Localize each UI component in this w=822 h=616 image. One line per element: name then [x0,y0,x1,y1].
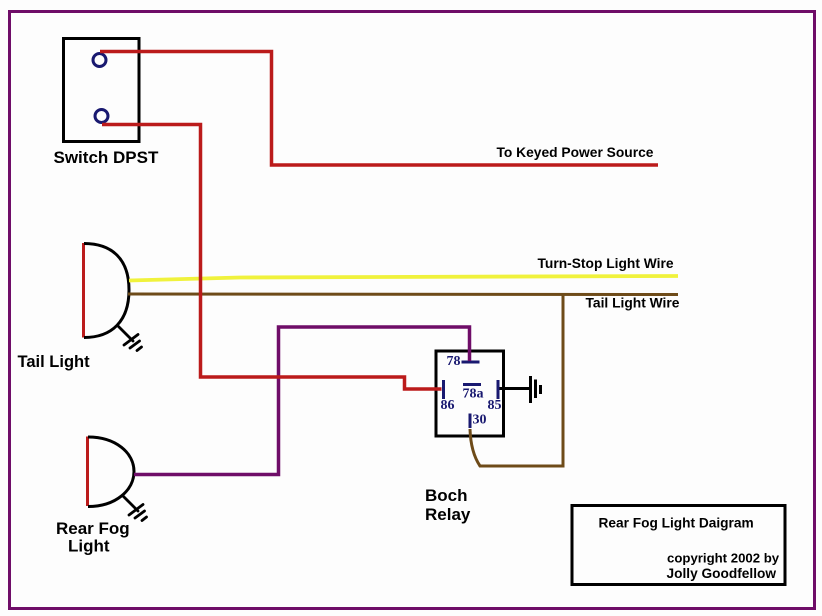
wire relay 85 to ground [500,387,530,390]
svg-text:Rear Fog: Rear Fog [56,519,130,538]
svg-text:Rear Fog Light Daigram: Rear Fog Light Daigram [599,516,754,531]
ground tail light [119,327,142,351]
svg-text:Relay: Relay [425,505,471,524]
pin 78 bar [462,361,480,364]
svg-text:85: 85 [488,398,502,413]
wire red switch to relay 86 [102,125,442,390]
wire yellow turn-stop [129,276,678,281]
relay U1 box [436,351,504,436]
tail light lamp [82,243,85,338]
pin 86 bar [442,380,445,399]
svg-text:To Keyed Power Source: To Keyed Power Source [497,145,654,160]
rear fog light lamp [86,437,89,507]
pin 78a bar [463,383,481,386]
svg-text:Boch: Boch [425,486,468,505]
wire brown tail light [128,293,678,297]
svg-text:86: 86 [441,398,455,413]
svg-text:Light: Light [68,537,110,556]
svg-text:copyright 2002 by: copyright 2002 by [667,551,780,566]
svg-text:78: 78 [447,354,461,369]
wire brown branch relay 30 to tail wire [470,295,563,466]
switch S1 box [64,39,140,142]
pin 30 bar [469,414,472,429]
switch terminal bottom [95,110,108,123]
ground relay [531,376,541,403]
svg-text:30: 30 [473,413,487,428]
switch terminal top [93,54,106,67]
wire red keyed power [100,52,658,166]
title box [572,506,785,585]
ground rear fog light [124,497,147,521]
svg-text:78a: 78a [463,387,484,402]
wire purple fog light to relay 78 [134,327,470,475]
svg-text:Tail Light: Tail Light [18,353,91,371]
svg-text:Tail Light Wire: Tail Light Wire [586,296,680,311]
svg-text:Turn-Stop Light Wire: Turn-Stop Light Wire [538,256,674,271]
svg-text:Switch DPST: Switch DPST [54,148,159,167]
svg-text:Jolly Goodfellow: Jolly Goodfellow [667,566,777,581]
pin 85 bar [497,380,500,399]
